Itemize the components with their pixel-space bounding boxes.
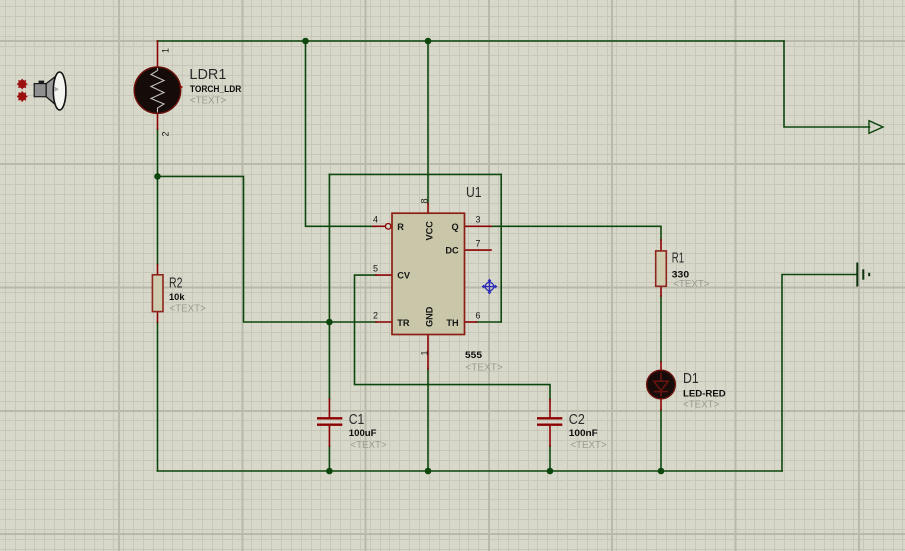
svg-text:DC: DC [445,246,459,256]
pin 1 GND stub [427,335,429,369]
pin 1 LDR1 [157,41,159,66]
svg-text:555: 555 [465,350,482,360]
ground symbol [857,263,869,287]
wire bottom rail [158,470,783,472]
svg-text:7: 7 [476,239,481,249]
svg-text:1: 1 [420,350,430,355]
pin 7 DC stub [465,249,492,251]
junction node D1 bottom [658,468,665,475]
svg-text:<TEXT>: <TEXT> [683,400,719,411]
wire loop right vertical [500,174,502,322]
junction node LDR / R2 [154,173,161,180]
svg-text:<TEXT>: <TEXT> [465,363,503,374]
wire Q to R1 [491,226,661,240]
svg-text:CV: CV [397,271,411,281]
wire R1 to D1 [660,296,662,362]
junction node top rail / VCC [425,38,432,45]
capacitor C1 plates [317,418,342,424]
resistor R2 [152,275,163,312]
svg-text:U1: U1 [466,184,482,201]
svg-text:<TEXT>: <TEXT> [570,440,606,451]
svg-text:LDR1: LDR1 [189,66,226,83]
pin R2 bottom [157,312,159,322]
output arrow [869,121,883,134]
op-amp U1 555 timer body [392,213,465,334]
svg-text:GND: GND [425,306,435,327]
svg-text:C1: C1 [349,411,365,428]
pin C2 bottom [549,426,551,446]
svg-text:10k: 10k [169,292,186,302]
wire node to R2 [157,176,159,264]
wire GND to bottom rail [427,369,429,471]
svg-text:100nF: 100nF [569,428,599,438]
pin 6 TH stub [465,321,477,323]
wire D1 to bottom rail [660,410,662,472]
wire TH-TR loop top [329,173,501,175]
pin D1 bottom [660,399,662,410]
svg-text:1: 1 [160,48,170,53]
svg-text:100uF: 100uF [349,428,377,438]
junction node GND bottom [425,468,432,475]
svg-text:3: 3 [476,215,481,225]
svg-text:R2: R2 [169,275,183,292]
pin C2 top [549,400,551,418]
junction node top rail / pin R [302,38,309,45]
svg-text:D1: D1 [683,370,699,387]
wire TH stub join [477,321,502,323]
origin marker [483,280,497,294]
svg-text:2: 2 [160,131,170,136]
svg-text:TH: TH [446,318,459,328]
wire LDR pin2 to node [157,129,159,176]
wire R2 to bottom rail [157,322,159,471]
pin R2 top [157,265,159,275]
svg-text:TORCH_LDR: TORCH_LDR [190,84,242,94]
svg-text:<TEXT>: <TEXT> [350,440,386,451]
pin 5 CV stub [376,274,392,276]
wire top rail [158,40,785,42]
pin 8 VCC stub [427,204,429,214]
svg-text:C2: C2 [569,411,585,428]
pin 2 TR stub [376,321,392,323]
torch light source icon [17,72,66,110]
svg-text:R: R [397,222,404,232]
inversion bubble pin 4 [385,224,391,230]
wire top rail to pin R [306,41,377,226]
pin 4 R stub [373,225,385,227]
pin D1 top [660,362,662,370]
svg-text:8: 8 [420,198,430,203]
svg-text:<TEXT>: <TEXT> [673,279,709,290]
junction node TR [326,319,333,326]
wire bottom-right to ground [782,275,856,472]
svg-text:4: 4 [373,215,378,225]
svg-text:R1: R1 [672,250,684,267]
wire CV to C2 [355,275,551,400]
svg-text:5: 5 [373,264,378,274]
wire node to TR [158,176,377,322]
junction node C2 bottom [547,468,554,475]
wire loop left vertical [328,174,330,322]
svg-text:<TEXT>: <TEXT> [190,96,226,107]
svg-text:LED-RED: LED-RED [683,388,726,398]
pin C1 top [328,399,330,417]
wire top rail to VCC [427,41,429,204]
resistor R1 [656,251,667,286]
svg-text:TR: TR [397,318,410,328]
wire C1 to bottom rail [328,446,330,471]
wire TR node to C1 [328,322,330,399]
capacitor C2 plates [537,418,562,424]
wire C2 to bottom rail [549,446,551,471]
svg-text:2: 2 [373,310,378,320]
pin R1 bottom [660,286,662,296]
LED D1 [647,370,676,399]
pin R1 top [660,240,662,251]
pin 3 Q stub [465,225,492,227]
svg-text:Q: Q [451,222,458,232]
LDR1 photoresistor [134,67,182,113]
wire top-right to arrow [784,41,870,127]
svg-text:VCC: VCC [425,221,435,241]
pin 2 LDR1 [157,114,159,129]
svg-text:6: 6 [476,310,481,320]
junction node C1 bottom [326,468,333,475]
svg-text:<TEXT>: <TEXT> [170,303,206,314]
pin C1 bottom [328,426,330,446]
